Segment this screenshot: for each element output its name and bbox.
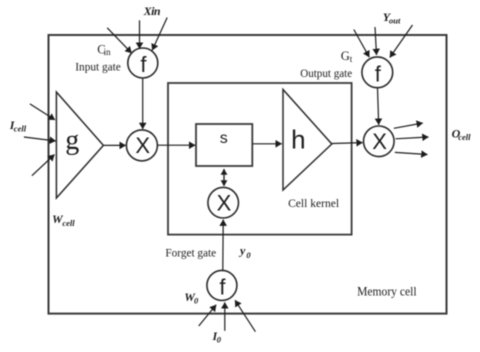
wire Ocell arrow 3 out of X3	[395, 152, 428, 154]
label Ocell	[452, 126, 472, 141]
circle X2 forget product	[208, 187, 239, 218]
svg-text:Cell kernel: Cell kernel	[288, 196, 340, 210]
wire Ocell arrow 1 out of X3	[394, 123, 423, 128]
wire Xin arrow 2 into input gate	[139, 20, 141, 49]
svg-text:t: t	[350, 54, 353, 64]
svg-text:f: f	[219, 275, 226, 300]
svg-text:in: in	[104, 47, 112, 57]
wire W0 arrow 1 into forget gate	[199, 305, 217, 326]
wire Yout arrow 3 into output gate	[390, 25, 413, 58]
wire Icell arrow 1 into g	[30, 104, 55, 120]
label y0	[238, 244, 251, 261]
circle X1 input product	[126, 130, 157, 161]
wire s to X2 double arrow	[223, 169, 225, 186]
wire arrow 3 into forget gate	[235, 300, 255, 332]
svg-text:cell: cell	[458, 132, 471, 142]
wire Yout arrow 1 into output gate	[354, 30, 370, 58]
inner box: Cell kernel boundary	[168, 83, 352, 235]
wire input gate to X1	[142, 78, 144, 129]
rect s (cell state)	[196, 124, 252, 166]
svg-text:h: h	[291, 125, 305, 155]
wire X1 to s	[158, 144, 196, 146]
svg-text:y: y	[238, 244, 246, 258]
svg-text:X: X	[372, 129, 387, 154]
wire Yout arrow 2 into output gate	[375, 27, 377, 55]
label Cin	[97, 42, 111, 57]
svg-text:G: G	[341, 49, 350, 63]
circle X3 output product	[364, 126, 395, 157]
wire Xin arrow 3 into input gate	[152, 18, 167, 51]
triangle h (output squashing)	[283, 90, 332, 191]
svg-text:s: s	[220, 130, 228, 147]
svg-text:X: X	[217, 191, 232, 216]
wire s to h	[253, 143, 282, 145]
circle f output gate	[362, 57, 393, 88]
svg-text:Input gate: Input gate	[75, 60, 121, 74]
wire Icell arrow 2 into g	[24, 137, 56, 141]
wire I0 arrow 2 into forget gate	[224, 302, 226, 331]
circle f forget gate	[207, 270, 237, 300]
svg-text:f: f	[375, 61, 382, 86]
svg-text:Forget gate: Forget gate	[165, 246, 216, 260]
label Gt	[341, 49, 353, 64]
outer box: Memory cell boundary	[49, 35, 447, 314]
svg-text:0: 0	[246, 250, 251, 260]
svg-text:f: f	[140, 52, 147, 77]
svg-text:out: out	[389, 16, 401, 26]
svg-text:cell: cell	[62, 218, 75, 228]
wire Xin arrow 1 into input gate	[107, 28, 131, 53]
wire g apex to X1	[103, 144, 125, 146]
wire output gate to X3	[378, 88, 379, 125]
svg-text:g: g	[65, 125, 79, 156]
label I0	[212, 329, 222, 345]
label Yout	[383, 10, 401, 26]
wire Ocell arrow 2 out of X3	[396, 137, 429, 139]
label Wcell	[52, 212, 75, 228]
svg-text:0: 0	[194, 296, 199, 306]
svg-text:0: 0	[217, 334, 222, 344]
svg-text:Xin: Xin	[143, 4, 161, 18]
wire Icell arrow 3 into g	[32, 155, 55, 176]
svg-text:Output gate: Output gate	[300, 66, 352, 80]
wire X2 to s up arrowhead	[223, 169, 225, 186]
label Icell	[9, 118, 27, 134]
circle f input gate	[128, 48, 158, 78]
wire h apex to X3	[332, 142, 363, 145]
svg-text:Memory cell: Memory cell	[357, 283, 417, 298]
svg-text:X: X	[135, 133, 150, 158]
triangle g (input squashing)	[56, 92, 103, 198]
label W0	[184, 290, 199, 306]
wire forget gate to X2	[222, 220, 224, 271]
svg-text:cell: cell	[14, 124, 27, 134]
